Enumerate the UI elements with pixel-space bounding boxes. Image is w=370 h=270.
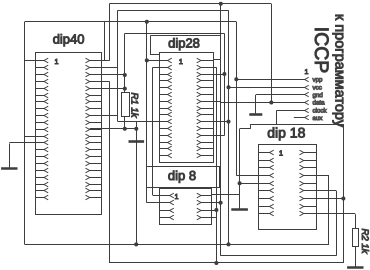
wire: dip28 right pin1 up to label box top xyxy=(220,35,222,59)
svg-text:1: 1 xyxy=(305,69,309,76)
svg-text:1: 1 xyxy=(279,148,283,157)
dip40 pin 1 label xyxy=(55,57,59,66)
wire: vertical x=146.8 dip28 pin1 feed (vpp net) xyxy=(146,22,148,203)
dip 18 label box (top + left edge stub + right edge runs down as wire) xyxy=(251,124,344,129)
wire: dip 8 right pin4 to vertical x=216.4 xyxy=(212,217,217,219)
node: junction dot vpp at (236.3,79.3) xyxy=(234,77,238,81)
ICCP connector pin contacts xyxy=(305,77,309,119)
node: junction dot at (239.6,183.25) dip 18 left pin5 xyxy=(238,181,242,185)
dip28 label box (top, left, right edges, partial bottom) xyxy=(151,35,221,59)
svg-text:dip40: dip40 xyxy=(53,31,85,46)
svg-text:vpp: vpp xyxy=(313,77,324,84)
ICCP title text xyxy=(310,27,332,74)
wire: dip40 right pin1 up to top line (data net) xyxy=(90,4,110,61)
ground G5 (below R2) xyxy=(347,247,363,268)
svg-text:vcc: vcc xyxy=(313,84,322,91)
node: junction dot at (136.3,128.8) ground stub xyxy=(134,127,138,131)
wire: vertical x=220.8 from top line down to data line (data net, taps dip28 right pin1) xyxy=(220,4,222,103)
ground G2 (below R1) xyxy=(129,122,145,142)
dip28 right pin column xyxy=(197,58,214,158)
wire: vcc line to ICCP vcc pin xyxy=(229,87,305,89)
resistor R2 label xyxy=(359,228,370,254)
dip 18 right pin column xyxy=(300,150,318,216)
dip40 left pin column (pins 1-21) xyxy=(36,58,49,200)
wire: vertical x=236.3 vpp net from top line down xyxy=(236,22,238,176)
wire: bottom bus1 y=243.7 (vcc) xyxy=(25,244,329,246)
wire: dip 18 left pin5 line xyxy=(240,183,259,185)
wire: aux line to ICCP aux pin xyxy=(294,117,305,119)
wire: vertical x=228.5 (vcc net down to bottom bus) xyxy=(228,10,230,244)
wire: dip28 left pin1 line from dot xyxy=(147,60,160,62)
wire: dip40 left pin1 feed from left bus xyxy=(25,60,36,62)
svg-text:aux: aux xyxy=(313,115,324,122)
svg-text:dip 18: dip 18 xyxy=(267,125,305,141)
ground G1 (left, dip40 pin13 net) xyxy=(1,144,17,169)
ICCP pin 1 label xyxy=(305,69,309,76)
node: junction dot vcc at (228.5,87.2) xyxy=(227,85,231,89)
dip40 label box (top, left, right edges; bottom merges with pin1 wire) xyxy=(25,22,105,61)
wire: dip28 right pin7 down to dip 8 right pin2 and bus3 xyxy=(213,101,336,256)
wire: clock line to ICCP clock pin xyxy=(277,110,305,112)
R1 bottom lead wire xyxy=(124,117,126,129)
svg-text:dip 8: dip 8 xyxy=(168,168,196,183)
node: junction dot at (220.6,202.7) dip 8 right pin2 xyxy=(219,201,223,205)
wire: bottom bus2 y=263.0 right portion xyxy=(216,262,343,264)
dip 8 label box xyxy=(147,167,220,188)
wire: ground stub below R1 bar down to bus1 xyxy=(136,141,138,244)
dip28 pin 1 label xyxy=(179,57,183,66)
wire: branch x=136.3 down from pin10 line to ground node xyxy=(136,122,138,129)
wire: dip18 right pin9 to R2 top xyxy=(317,213,355,215)
R2 top lead wire xyxy=(355,214,357,229)
dip 18 label text xyxy=(267,125,305,141)
dip 18 socket body xyxy=(259,145,317,230)
wire: dip 8 right pin3 line xyxy=(212,210,217,212)
dip40 socket body xyxy=(36,53,102,215)
wire: gnd line to ICCP gnd pin xyxy=(256,94,305,96)
node: junction dot at (228.5,121.6) dip28 right pin10 xyxy=(227,120,231,124)
svg-text:1: 1 xyxy=(179,57,183,66)
node: junction dot at (124.8,88.65) dip40 right pin5 xyxy=(123,87,127,91)
wire: dip40 right pin4 down to bottom bus2 xyxy=(90,81,217,263)
node: junction dot at (146.8,21.8) xyxy=(145,20,149,24)
node: junction dot at (216.4,262.3) xyxy=(214,261,218,265)
wire: dip40 left pin13 to ground G1 xyxy=(9,142,35,144)
wire: dip 8 right pin1 to ground G4 xyxy=(212,194,240,196)
svg-text:gnd: gnd xyxy=(313,92,324,99)
wire: vertical x=117.9 (vcc net, taps dip40 pins 2 and 9) xyxy=(117,10,119,121)
dip28 left pin column (pins 1-15) xyxy=(160,58,172,158)
svg-text:1: 1 xyxy=(175,192,179,201)
wire: dip40 left pin12 feed from left bus xyxy=(25,136,36,138)
svg-text:ICCP: ICCP xyxy=(310,27,332,74)
dip 8 label text xyxy=(168,168,196,183)
node: junction dot at (124.8,74.95) dip40 right pin3 xyxy=(123,73,127,77)
wire: clock stub down to dip 18 label box top xyxy=(276,110,278,124)
svg-text:к программатору: к программатору xyxy=(332,14,348,128)
wire: dip28 right pin2 down to dip 8 right pin3 and bus2 xyxy=(213,67,216,263)
wire: dip28 left pin2 down to dip 8 left pin1 xyxy=(153,67,160,195)
ICCP pin name labels vpp vcc gnd data clock aux xyxy=(313,77,328,123)
dip40 label text xyxy=(53,31,85,46)
dip 8 left pin column (pins 1-4) xyxy=(160,193,174,220)
wire: vpp line to ICCP vpp pin xyxy=(236,79,304,81)
wire: dip28 right pin3 line to vertical xyxy=(213,74,224,76)
wire: vertical x=224.4 down to dip28 right pin3 xyxy=(224,33,226,135)
R1 top lead wire xyxy=(124,33,126,92)
wire: dip40 right pin2 up to vcc top line xyxy=(90,67,118,69)
svg-text:R1 1k: R1 1k xyxy=(128,92,139,118)
node: junction dot at (224.4,74.0) dip28 right pin3 xyxy=(222,72,226,76)
wire: busB up to dip 18 right pin6 xyxy=(317,191,337,256)
wire: dip40 right pin9 to vertical x=117.9 xyxy=(90,115,118,117)
wire: dip28 right pin11 line to vertical x=224.4 xyxy=(213,135,224,137)
wire: vpp net to dip 18 left pin4 xyxy=(236,175,258,177)
ground G3 (gnd net near ICCP) xyxy=(249,95,262,115)
node: junction dot at (124.8,128.8) R1 bottom xyxy=(123,127,127,131)
resistor R1 label xyxy=(128,92,139,118)
wire: dip40 box left edge down to bottom bus1 (vcc) xyxy=(24,58,26,244)
wire: dip18 box right edge wire down to bus2 xyxy=(343,124,345,263)
R2 bottom lead wire xyxy=(355,247,357,267)
dip 8 pin 1 label xyxy=(175,192,179,201)
wire: dip40 right pin3 to R1 top lead xyxy=(90,74,125,76)
wire: ground node line y=128.8 from dip40 right pin11 xyxy=(90,128,137,130)
node: junction dot at (146.8,60.4) dip28 pin1 xyxy=(145,58,149,62)
node: junction dot at (343.4,198.5) dip 18 right pin7 xyxy=(341,197,345,201)
node: junction dot at (216.4,210.0) dip 8 right pin3 xyxy=(214,208,218,212)
wire: dip 8 right pin2 line xyxy=(212,202,221,204)
dip40 right pin column xyxy=(86,58,102,200)
resistor R2 body xyxy=(353,229,359,247)
dip 18 left pin column (pins 1-9) xyxy=(259,150,274,216)
wire: bus1 up to dip18 right pin4 xyxy=(317,176,329,245)
wire: vcc top line y=10.2 xyxy=(118,10,229,12)
dip28 label text xyxy=(168,35,200,50)
wire: vertical x=271.3 from top line down to data line xyxy=(271,4,273,103)
svg-text:1: 1 xyxy=(55,57,59,66)
svg-text:data: data xyxy=(313,100,326,107)
wire: dip28 left pin10 line to vertical x=117.9 xyxy=(118,121,160,123)
wire: dip40 right pin5 to R1 top lead xyxy=(90,88,125,90)
wire: dip40 box top edge extends right as vpp top line y=21.8 xyxy=(104,21,236,23)
node: junction dot at (136.2,243.7) xyxy=(134,242,138,246)
wire: dip 18 box left edge wire to ground G4 vertical xyxy=(240,129,251,195)
node: junction dot at (228.5,243.7) xyxy=(227,242,231,246)
dip 8 right pin column xyxy=(197,193,212,220)
node: junction dot on top line at x=220.8 xyxy=(219,2,223,6)
wire: top line y=3.8 (data net) xyxy=(109,3,271,5)
wire: R1 top node line y=33.4 to the right xyxy=(125,33,225,35)
dip 8 socket body xyxy=(160,189,212,225)
node: junction dot on data line at x=271.3 xyxy=(269,101,273,105)
svg-text:clock: clock xyxy=(313,108,328,115)
wire: vpp feed to dip 8 left pin2 xyxy=(147,202,160,204)
dip 18 pin 1 label xyxy=(279,148,283,157)
wire: dip 18 right pin7 line xyxy=(317,198,343,200)
wire: data line to ICCP data pin xyxy=(221,102,305,104)
dip28 socket body xyxy=(160,53,214,163)
resistor R1 body xyxy=(122,93,130,117)
ground G4 (left of dip18) xyxy=(231,195,248,210)
k programmatoru text xyxy=(332,14,348,128)
wire: dip28 right pin10 to vertical x=228.5 xyxy=(213,121,228,123)
wire: dip28 right pin1 to vertical x=220.8 xyxy=(213,59,221,61)
svg-text:R2 1k: R2 1k xyxy=(359,228,370,254)
svg-text:dip28: dip28 xyxy=(168,35,200,50)
